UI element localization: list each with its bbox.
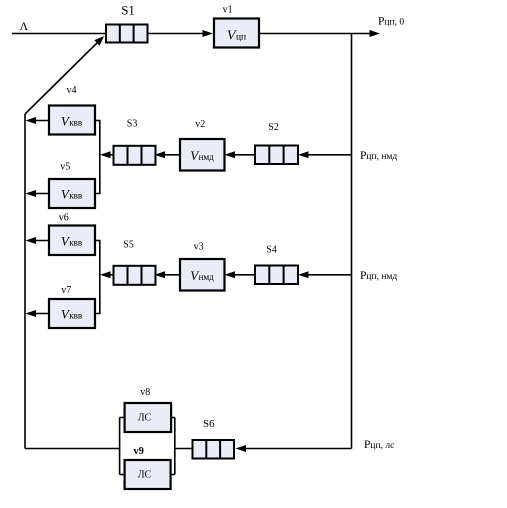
svg-text:v5: v5 [60, 162, 70, 173]
svg-text:v8: v8 [140, 387, 150, 398]
svg-text:S4: S4 [266, 245, 277, 256]
svg-text:Λ: Λ [20, 19, 29, 33]
svg-text:ЛС: ЛС [138, 470, 152, 481]
svg-text:Рцп, нмд: Рцп, нмд [360, 270, 397, 282]
svg-text:S6: S6 [203, 418, 215, 430]
svg-text:v3: v3 [194, 242, 204, 253]
svg-text:S2: S2 [268, 122, 279, 133]
svg-text:v7: v7 [61, 285, 71, 296]
svg-text:S3: S3 [127, 119, 138, 130]
svg-text:S1: S1 [121, 2, 135, 17]
svg-text:v2: v2 [195, 119, 205, 130]
svg-text:v1: v1 [223, 5, 233, 16]
svg-text:Рцп, 0: Рцп, 0 [378, 16, 404, 28]
svg-text:S5: S5 [123, 239, 134, 250]
svg-text:Рцп, нмд: Рцп, нмд [360, 150, 397, 162]
svg-text:ЛС: ЛС [138, 413, 152, 424]
svg-text:Рцп, лс: Рцп, лс [364, 439, 394, 451]
svg-text:v9: v9 [133, 446, 144, 457]
svg-text:v4: v4 [67, 85, 77, 96]
svg-text:v6: v6 [59, 213, 69, 224]
